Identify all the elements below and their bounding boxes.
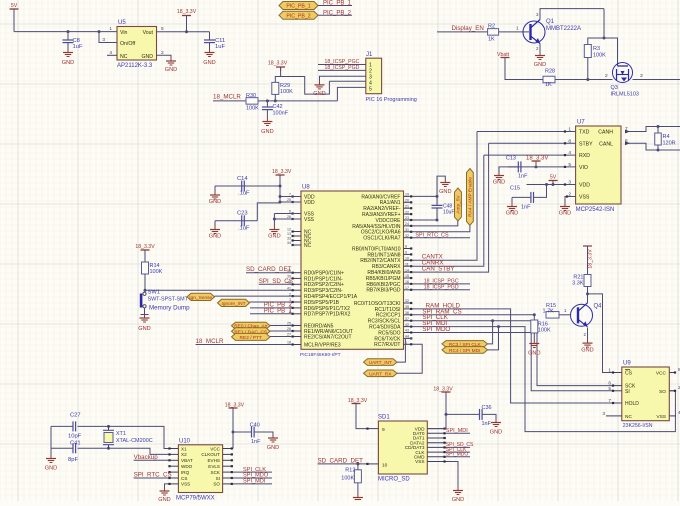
resistor R30: [246, 93, 259, 112]
svg-text:VDD: VDD: [579, 183, 590, 189]
power 18_3.3V at VIO: [526, 156, 548, 166]
svg-text:1nF: 1nF: [518, 174, 528, 180]
svg-text:SI: SI: [216, 476, 220, 481]
capacitor C40: [233, 423, 273, 446]
ground right of C36: [490, 419, 502, 436]
ground below R16: [528, 340, 540, 357]
svg-text:5: 5: [608, 386, 611, 392]
svg-text:Amp_5V: Amp_5V: [455, 195, 461, 214]
net label Vbackup: [134, 454, 169, 461]
wire J1.4 to 3.3V: [329, 80, 365, 82]
port Ign_Sense: [187, 293, 215, 301]
svg-text:120R: 120R: [663, 141, 676, 147]
svg-text:SW1: SW1: [148, 290, 161, 296]
svg-text:Q1: Q1: [546, 19, 555, 25]
resistor R2: [488, 24, 499, 43]
capacitor C13: [502, 156, 528, 180]
net label SPI_CLK (U10): [233, 467, 272, 473]
svg-text:U7: U7: [577, 120, 585, 126]
svg-text:VDD: VDD: [304, 200, 315, 206]
svg-text:100K: 100K: [341, 476, 354, 482]
wire R28 to Q3: [555, 73, 613, 80]
svg-text:XT1: XT1: [116, 431, 126, 437]
wire RE0: [270, 325, 292, 327]
svg-text:C15: C15: [510, 186, 520, 192]
svg-text:32: 32: [405, 234, 409, 238]
svg-text:NC: NC: [120, 54, 128, 60]
svg-text:U10: U10: [179, 439, 191, 445]
wire SPI_MDI: [412, 325, 675, 432]
port Ignore_INT: [218, 299, 250, 307]
wire RA0 to C48 net: [412, 176, 445, 198]
svg-text:NC: NC: [625, 414, 632, 420]
svg-text:10: 10: [382, 463, 388, 469]
svg-text:24: 24: [405, 222, 409, 226]
svg-text:U5: U5: [118, 20, 126, 26]
wire R2 to Q1 base: [499, 26, 529, 32]
svg-text:SI: SI: [625, 389, 630, 395]
crystal bottom wire: [51, 447, 169, 455]
svg-text:18_3.3V: 18_3.3V: [526, 156, 548, 162]
svg-text:CS: CS: [181, 476, 187, 481]
svg-text:5: 5: [161, 26, 164, 32]
net label SD_CARD_DET: [246, 266, 292, 273]
ground left of C14: [209, 186, 221, 205]
svg-text:5: 5: [369, 86, 372, 92]
net label PIC_PB_1 (RD7): [250, 308, 292, 314]
net label CANRX: [422, 260, 444, 267]
ground crystal caps: [45, 455, 57, 472]
net label SPI_SD_CS (SD1): [446, 442, 474, 448]
wire SPI_CLK: [412, 319, 612, 385]
wire Q3 drain right: [633, 73, 680, 80]
svg-text:GND: GND: [439, 189, 451, 195]
svg-text:18_ICSP_PGD: 18_ICSP_PGD: [325, 65, 360, 71]
net label 18_MCLR: [213, 94, 241, 101]
ground U10: [158, 488, 170, 504]
svg-text:42: 42: [405, 323, 409, 327]
svg-text:GND: GND: [62, 60, 74, 66]
SRAM U9: [602, 361, 680, 430]
svg-text:SPI_MDO: SPI_MDO: [422, 326, 450, 333]
wire R3 bottom: [586, 58, 589, 82]
svg-text:GND: GND: [141, 54, 153, 60]
net label 18_ICSP_PGC (U8): [412, 278, 470, 284]
svg-text:GND: GND: [261, 129, 273, 135]
svg-text:CAN_STBY: CAN_STBY: [422, 265, 455, 272]
svg-text:12: 12: [287, 228, 291, 232]
svg-text:GND: GND: [559, 211, 571, 217]
svg-text:19: 19: [405, 193, 409, 197]
svg-text:Display_EN: Display_EN: [452, 25, 484, 32]
svg-text:33: 33: [287, 237, 291, 241]
svg-text:MCP79/5WXX: MCP79/5WXX: [176, 496, 215, 502]
svg-text:14: 14: [405, 268, 409, 272]
svg-text:.1uF: .1uF: [238, 226, 250, 232]
port vertical RA4/AMP: [467, 169, 474, 226]
svg-text:X2: X2: [181, 452, 187, 457]
svg-text:10pF: 10pF: [68, 434, 82, 440]
wire R29 top tee: [275, 77, 329, 95]
svg-text:34: 34: [287, 241, 291, 245]
power 18_3.3V above U8: [272, 169, 292, 186]
svg-text:PIC_PB_2: PIC_PB_2: [286, 13, 310, 19]
svg-text:RA4 / AMP Enable: RA4 / AMP Enable: [467, 177, 473, 217]
wire U5 Vout to 3.3V: [157, 30, 210, 33]
svg-text:8pF: 8pF: [68, 457, 78, 463]
svg-text:100K: 100K: [280, 89, 293, 95]
svg-text:VSS: VSS: [579, 195, 590, 201]
wire CAN_STBY: [412, 143, 489, 272]
svg-text:1K: 1K: [545, 82, 552, 88]
wire VIO: [508, 165, 576, 168]
net label SPI_MDO (U10): [233, 473, 272, 479]
ground left of C15: [506, 197, 518, 216]
wire R14 to junction: [144, 274, 146, 290]
ground U8 VSS: [268, 226, 280, 240]
capacitor C8: [63, 32, 83, 50]
svg-text:9: 9: [405, 251, 407, 255]
svg-text:20: 20: [405, 199, 409, 203]
resistor R21 pullup: [572, 246, 593, 294]
net label 18_ICSP_PGD (U8): [412, 284, 470, 290]
svg-text:GND: GND: [534, 62, 546, 68]
wire + net label PIC_PB_1: [318, 1, 352, 7]
regulator U5: [102, 20, 164, 69]
svg-text:18_3.3V: 18_3.3V: [272, 169, 292, 175]
svg-text:GND: GND: [452, 497, 464, 501]
svg-text:GND: GND: [493, 180, 505, 186]
svg-text:43: 43: [405, 329, 409, 333]
svg-text:1uF: 1uF: [215, 44, 225, 50]
svg-text:UART_INT: UART_INT: [369, 360, 392, 366]
svg-text:SWT-SPST-SMT: SWT-SPST-SMT: [148, 296, 189, 302]
net label SPI_RAM_CS: [422, 308, 461, 315]
svg-text:18_MCLR: 18_MCLR: [213, 94, 241, 101]
capacitor C27: [68, 413, 82, 440]
wire CANRX: [412, 155, 484, 266]
svg-text:U9: U9: [623, 361, 631, 367]
svg-text:GND: GND: [490, 430, 502, 436]
svg-text:5V: 5V: [11, 3, 18, 9]
svg-text:GND: GND: [267, 445, 279, 451]
svg-text:SD1: SD1: [378, 415, 390, 421]
svg-text:RC4 / SPI MDI: RC4 / SPI MDI: [449, 348, 480, 354]
svg-text:7: 7: [608, 398, 611, 404]
svg-text:1nF: 1nF: [251, 439, 261, 445]
svg-text:8: 8: [405, 245, 407, 249]
svg-text:R4: R4: [663, 134, 670, 140]
svg-text:C27: C27: [70, 413, 81, 419]
svg-text:GND: GND: [203, 60, 215, 66]
svg-text:PIC_PB_1: PIC_PB_1: [286, 4, 310, 10]
capacitor C23 rail: [215, 201, 282, 221]
svg-text:AP2112K-3.3: AP2112K-3.3: [117, 63, 153, 69]
transistor Q4: [571, 303, 603, 327]
svg-text:3: 3: [102, 37, 105, 43]
capacitor C41: [68, 441, 81, 464]
capacitor C48: [432, 196, 455, 220]
junction at C8: [67, 30, 70, 33]
crystal XT1: [103, 426, 153, 448]
svg-text:18_3.3V: 18_3.3V: [268, 61, 288, 67]
ground below Q1: [534, 52, 546, 68]
resistor R16: [531, 315, 551, 340]
svg-text:C40: C40: [250, 423, 260, 429]
svg-text:U8: U8: [302, 185, 310, 191]
svg-text:1: 1: [608, 368, 611, 374]
svg-text:18_3.3V: 18_3.3V: [225, 403, 245, 409]
svg-text:On/Off: On/Off: [120, 41, 136, 47]
svg-text:EVHS: EVHS: [207, 458, 220, 463]
svg-text:CLKOUT: CLKOUT: [201, 452, 220, 457]
wire MCLR net to J1 pin5: [258, 99, 337, 102]
svg-text:R30: R30: [246, 93, 256, 99]
port RC3 / SPI CLK: [442, 341, 488, 348]
net label SPI_MDO (SD1): [446, 452, 470, 458]
svg-text:C23: C23: [237, 211, 248, 217]
svg-text:UART_RX: UART_RX: [369, 371, 392, 377]
svg-text:36: 36: [405, 311, 409, 315]
wire VSS to gnd: [565, 195, 576, 203]
svg-text:GND: GND: [506, 211, 518, 217]
CAN transceiver U7: [568, 120, 628, 214]
wire C14 rail: [215, 185, 282, 188]
wire VDD: [527, 183, 576, 186]
resistor R28: [543, 69, 555, 89]
wire SPI_MDO: [412, 333, 612, 391]
wire RE1: [270, 330, 292, 332]
wire UART_INT to RC6: [397, 338, 412, 362]
wire RD3 to SW1/R14: [144, 289, 293, 292]
wire UART_RX to RC7: [397, 344, 422, 373]
svg-text:31: 31: [405, 228, 409, 232]
svg-text:17: 17: [405, 286, 409, 290]
resistor R12: [341, 464, 361, 494]
connector J1: [366, 52, 417, 103]
svg-text:23: 23: [405, 216, 409, 220]
power 5V at U7 VDD: [549, 175, 558, 185]
ground below C42: [261, 118, 273, 135]
svg-text:C36: C36: [482, 405, 492, 411]
capacitor C15: [510, 185, 547, 211]
wire U10 VSS to gnd: [165, 484, 169, 488]
net label SPI_CLK (SD1): [446, 447, 470, 453]
svg-text:GND: GND: [158, 497, 170, 501]
svg-text:18_3.3V: 18_3.3V: [433, 387, 453, 393]
power Vbatt: [497, 52, 510, 62]
svg-text:VSS: VSS: [415, 459, 424, 464]
power 18_3.3V above R14: [135, 244, 155, 262]
svg-text:3: 3: [602, 411, 605, 417]
svg-text:GND: GND: [209, 199, 221, 205]
capacitor C42: [262, 101, 289, 118]
svg-text:SO: SO: [213, 482, 220, 487]
net label SPI_CLK (U8): [422, 314, 448, 321]
svg-text:MCLR/VPP/RE3: MCLR/VPP/RE3: [304, 342, 341, 348]
net label SPI_MDI (U10): [233, 479, 272, 485]
resistor R4: [655, 127, 676, 151]
svg-text:PIC_PB_2: PIC_PB_2: [323, 10, 352, 16]
net label CAN_STBY: [422, 265, 455, 272]
svg-text:GND: GND: [209, 234, 221, 240]
svg-text:Q4: Q4: [594, 304, 603, 310]
wire RXD: [484, 154, 576, 156]
net label SD_CARD_DET (SD1): [318, 458, 367, 466]
svg-text:Memory Dump: Memory Dump: [149, 304, 190, 311]
ground below Q4: [581, 340, 593, 354]
net label PIC_PB_2 (RD6): [250, 303, 292, 309]
microcontroller U8: [287, 185, 412, 359]
wire Ign_Sense to RD4: [215, 295, 293, 297]
wire Q4 emitter: [584, 328, 588, 340]
svg-text:XTAL-CM200C: XTAL-CM200C: [116, 438, 153, 444]
svg-text:HOLD: HOLD: [625, 401, 639, 407]
wire + net label PIC_PB_2: [318, 10, 352, 16]
wire RE2: [270, 336, 292, 338]
power 5V (top-left): [10, 3, 19, 13]
wire Q1 collector: [536, 9, 604, 20]
svg-text:1nF: 1nF: [482, 421, 492, 427]
svg-text:22: 22: [405, 210, 409, 214]
svg-text:PIC_PB_1: PIC_PB_1: [323, 1, 352, 7]
power 18_3.3V for SD VDD: [427, 387, 453, 429]
svg-text:IRQ: IRQ: [181, 470, 190, 475]
svg-text:C42: C42: [273, 104, 283, 110]
wire Ignore_INT to RD5: [250, 301, 293, 303]
port RC4 / SPI MDI: [442, 347, 488, 354]
svg-text:Ignore_INT: Ignore_INT: [222, 301, 246, 307]
svg-text:VBAT: VBAT: [181, 458, 193, 463]
svg-text:GND: GND: [268, 234, 280, 240]
svg-text:100K: 100K: [150, 269, 163, 275]
wire On/Off tap: [98, 30, 118, 42]
svg-text:100K: 100K: [246, 106, 259, 112]
net label SPI_RTC_CS (U10): [134, 472, 172, 479]
wire J1.2 PGD: [318, 65, 366, 71]
svg-text:23K256-I/SN: 23K256-I/SN: [623, 423, 653, 429]
svg-text:SCK: SCK: [211, 470, 221, 475]
svg-text:GND: GND: [138, 326, 150, 332]
wire 5V rail to U5 Vin: [14, 9, 117, 32]
svg-text:GND: GND: [45, 466, 57, 472]
wire CANH: [625, 125, 680, 134]
svg-text:C14: C14: [237, 176, 248, 182]
wire CANL: [625, 141, 680, 151]
svg-text:VCC: VCC: [656, 371, 667, 377]
wire R15 to Q4 base: [559, 308, 570, 315]
ground below C11: [203, 49, 215, 66]
power 18_3.3V at U5 out: [177, 9, 197, 32]
svg-text:MCP2542-ISN: MCP2542-ISN: [576, 207, 615, 213]
svg-text:RE2 / PTT: RE2 / PTT: [240, 335, 262, 341]
svg-text:18_3.3V: 18_3.3V: [135, 244, 155, 250]
pin U5.2 GND wire: [157, 55, 172, 57]
net label RAM_HOLD: [426, 302, 461, 309]
net label SPI_MDI (SD1): [446, 428, 470, 434]
switch SW1: [140, 290, 190, 312]
ground U5 GND pin: [165, 58, 177, 74]
wire Q4 collector: [586, 292, 612, 372]
svg-text:VSS: VSS: [304, 217, 315, 223]
net label Display_EN: [452, 25, 484, 32]
svg-text:10uF: 10uF: [443, 210, 454, 216]
svg-text:C13: C13: [506, 156, 516, 162]
svg-text:CANL: CANL: [599, 141, 613, 147]
ground SD1 VSS: [452, 487, 464, 503]
wire J1.1 PGC: [318, 59, 366, 65]
svg-text:1nF: 1nF: [521, 205, 531, 211]
svg-text:9: 9: [382, 427, 385, 433]
svg-text:100K: 100K: [538, 328, 551, 334]
wire SD VSS to gnd: [446, 462, 458, 488]
net label SPI_RTC_CS: [412, 232, 470, 238]
svg-text:15: 15: [405, 274, 409, 278]
ground left of C23: [209, 221, 221, 240]
svg-text:GND: GND: [581, 348, 593, 354]
svg-text:WDO: WDO: [181, 464, 193, 469]
capacitor C14: [237, 176, 250, 197]
svg-text:Vbatt: Vbatt: [497, 52, 510, 58]
svg-text:SD_CARD_DET: SD_CARD_DET: [246, 266, 292, 273]
port PIC_PB_2: [279, 11, 318, 19]
net label SPI_MDO (U8): [422, 326, 450, 333]
svg-text:1.7K: 1.7K: [543, 308, 555, 314]
wire RAM_HOLD: [412, 309, 612, 403]
net label CANTX: [422, 254, 443, 261]
svg-text:2: 2: [605, 73, 608, 79]
svg-text:18_3.3V: 18_3.3V: [177, 9, 197, 15]
svg-text:EVLS: EVLS: [208, 464, 220, 469]
svg-text:32: 32: [405, 299, 409, 303]
port RE2 / PTT: [232, 333, 271, 341]
svg-text:PIC 16 Programming: PIC 16 Programming: [366, 97, 417, 103]
svg-text:VSS: VSS: [181, 482, 190, 487]
port UART_RX: [364, 370, 398, 377]
port PIC_PB_1: [279, 2, 318, 10]
ground U7 VSS: [559, 203, 571, 217]
ground left of C13: [493, 167, 505, 186]
wire STBY: [489, 142, 576, 144]
svg-text:1: 1: [516, 26, 519, 32]
wire Display_EN to R2: [437, 31, 488, 33]
power 18_3.3V above R29: [268, 61, 288, 77]
ground below R12: [353, 494, 363, 502]
svg-text:OSC1/CLKI/RA7: OSC1/CLKI/RA7: [363, 236, 400, 242]
svg-text:RB7/KBI3/PGD: RB7/KBI3/PGD: [366, 288, 401, 294]
svg-text:C41: C41: [70, 441, 81, 447]
svg-text:CANH: CANH: [598, 130, 613, 136]
svg-text:VSS: VSS: [656, 414, 666, 420]
ground J1 pin3: [313, 81, 325, 97]
svg-text:SO: SO: [659, 389, 666, 395]
mosfet Q3: [611, 63, 639, 98]
svg-text:MICRO_SD: MICRO_SD: [378, 477, 410, 483]
ground below SW1: [138, 315, 150, 333]
capacitor C23: [237, 211, 250, 232]
wire VSS to gnd: [273, 214, 301, 227]
ground above C48: [439, 179, 451, 195]
svg-text:RC7/RX/DT: RC7/RX/DT: [374, 342, 400, 348]
svg-text:1: 1: [109, 26, 112, 32]
svg-text:R12: R12: [345, 468, 355, 474]
wire VDDCORE row to C48: [412, 219, 439, 222]
svg-text:SPI_SD_CS: SPI_SD_CS: [259, 278, 293, 285]
svg-text:GND: GND: [165, 67, 177, 73]
ground below C8: [62, 49, 74, 66]
svg-text:PIC18F46K80-I/PT: PIC18F46K80-I/PT: [300, 352, 341, 358]
port RE1 / DAC_CS: [232, 328, 271, 336]
